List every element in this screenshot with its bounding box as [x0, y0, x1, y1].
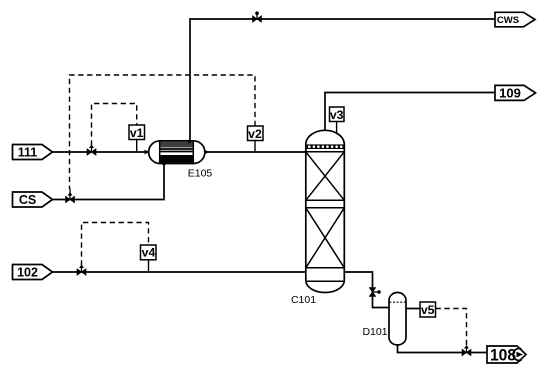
svg-text:109: 109: [499, 86, 521, 101]
wire CS line and riser to E105: [52, 164, 164, 200]
stream label 108: [487, 346, 526, 365]
svg-text:v5: v5: [421, 303, 435, 317]
svg-text:CS: CS: [19, 193, 36, 207]
wire D101 vapor to v5: [406, 308, 420, 310]
svg-text:111: 111: [18, 146, 38, 160]
dashed signal v5 to product valve: [436, 309, 467, 346]
stream label CS: [13, 192, 53, 207]
column C101: [306, 130, 345, 292]
dashed signal valve102 to v4: [82, 223, 149, 266]
stream label 111: [13, 145, 53, 160]
stream label 109: [495, 85, 536, 100]
svg-text:108: 108: [490, 346, 516, 365]
svg-text:v3: v3: [330, 108, 344, 122]
svg-text:CWS: CWS: [497, 15, 519, 26]
heat exchanger E105: [145, 140, 210, 166]
svg-text:v2: v2: [248, 127, 262, 141]
vessel D101: [389, 293, 406, 345]
wire overhead vapor to 109: [325, 93, 495, 131]
stream label 102: [13, 265, 53, 280]
wire bottoms line to D101: [344, 272, 389, 308]
controller box v1: [129, 125, 145, 152]
controller box v5: [420, 302, 436, 317]
valve on bottoms line: [369, 288, 380, 297]
svg-text:C101: C101: [291, 294, 316, 306]
controller box v4: [141, 245, 157, 272]
wire 111 feed line: [52, 151, 306, 153]
valve on 102 line: [77, 265, 86, 276]
svg-text:D101: D101: [362, 326, 387, 338]
svg-text:102: 102: [17, 266, 38, 280]
dashed signal valve111 to v1: [92, 104, 137, 146]
controller box v2: [248, 126, 264, 152]
svg-text:v1: v1: [130, 126, 144, 140]
wire D101 bottom product to 108: [398, 344, 488, 353]
dashed signal v2 to CS valve: [70, 75, 256, 189]
svg-text:E105: E105: [188, 168, 213, 180]
controller box v3: [330, 107, 345, 134]
svg-text:v4: v4: [142, 246, 156, 260]
stream label CWS: [495, 12, 535, 26]
valve on CWS line: [253, 11, 262, 22]
wire 102 feed line: [52, 271, 306, 273]
valve on CS line: [66, 189, 75, 203]
wire CWS header line: [190, 19, 494, 141]
valve on 111 line: [87, 145, 96, 156]
valve on product line: [462, 345, 471, 356]
